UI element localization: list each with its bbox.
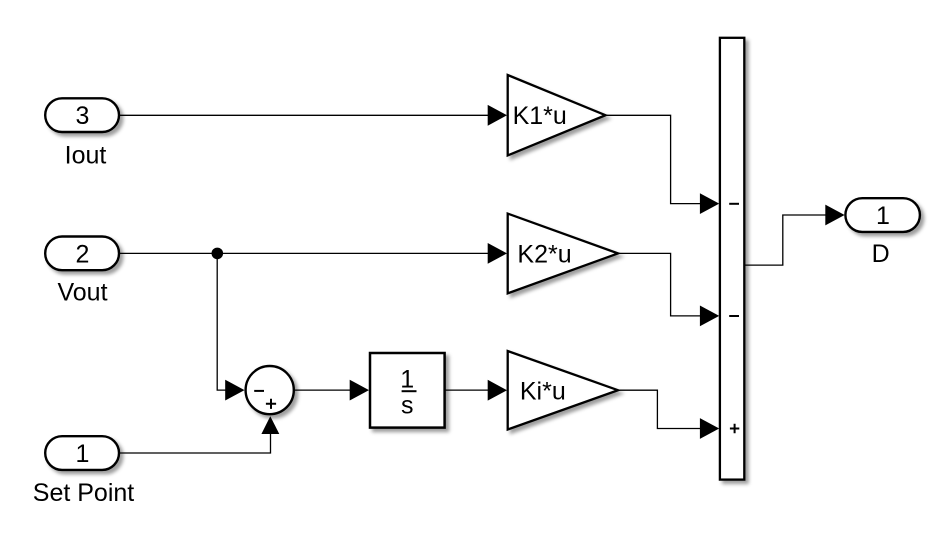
svg-text:1: 1	[76, 440, 90, 468]
svg-text:1: 1	[400, 365, 414, 393]
svg-text:K1*u: K1*u	[513, 102, 567, 130]
svg-text:Ki*u: Ki*u	[520, 377, 566, 405]
svg-text:Iout: Iout	[65, 141, 107, 169]
svg-text:s: s	[401, 391, 414, 419]
svg-text:2: 2	[76, 240, 90, 268]
svg-text:Set Point: Set Point	[33, 479, 135, 507]
svg-text:Vout: Vout	[57, 279, 107, 307]
svg-text:1: 1	[876, 202, 890, 230]
svg-text:3: 3	[76, 102, 90, 130]
svg-text:D: D	[872, 240, 890, 268]
svg-text:K2*u: K2*u	[517, 241, 571, 269]
